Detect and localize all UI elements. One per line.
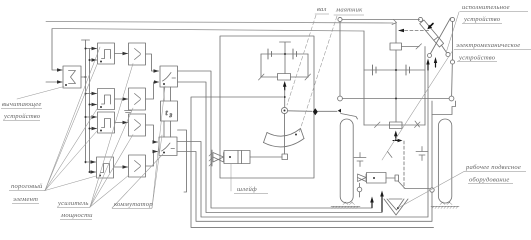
arrows bus to P4 [86,161,96,163]
wire summer output [81,76,86,78]
damper bowtie [213,153,224,163]
label маятник leader dashed [299,16,337,133]
wire wiper to pivot [284,90,286,107]
pendulum sector [264,139,305,147]
svg-text:мощности: мощности [60,212,93,219]
wire long feedback line top2 [52,29,364,32]
label вал leader dashed [287,15,316,105]
amplifier A1 [129,43,146,65]
svg-text:3: 3 [170,114,173,119]
link rod to blade [398,181,405,189]
bus vertical 1 [85,40,87,163]
svg-text:исполнительное: исполнительное [462,4,510,11]
actuator cylinder body [420,20,444,47]
tick arrows bridge [259,74,265,80]
svg-text:маятник: маятник [335,7,363,14]
wheel right [438,119,451,203]
wire P1 to A1 [115,53,128,55]
svg-text:пороговый: пороговый [11,183,43,190]
wire T1 side branch [178,130,187,192]
ground hatch right [431,205,459,207]
floating bold arrow near wheel [434,57,437,63]
pot frame left [363,31,365,125]
wire y188 [405,188,430,190]
wire K1 to T1 [164,87,171,101]
svg-text:усилитель: усилитель [57,200,89,207]
svg-text:электромеханическое: электромеханическое [456,42,520,49]
leader executive [446,12,459,53]
wire diamond to shaft arrow [318,110,337,112]
link rod diag [431,18,451,54]
wire P2 to A2 [115,98,128,100]
damper rod [250,156,282,158]
blade cylinder bowtie [358,174,367,182]
leader fan commutator [112,86,165,208]
wiper box pot [390,122,403,129]
link lower joint [428,54,432,58]
pot bottom wire [364,124,425,126]
ground contact marks left [343,202,355,205]
wire K1 out1 [178,71,373,208]
pot frame right [424,47,426,126]
actuator black arrow [431,24,434,27]
threshold block P1 [98,43,115,64]
wiper box bridge [278,74,291,81]
commutator K1 [160,66,178,87]
amplifier A2 [129,88,146,110]
svg-text:устройство: устройство [3,113,41,120]
damper cylinder C1 [224,151,250,164]
bus circle joint [430,188,434,192]
leader fan amplifier [90,64,133,208]
rod end square on pendulum [282,154,288,160]
suspension battery right [416,147,428,161]
battery B1 [268,49,272,59]
wire input2 to summer [46,81,62,83]
strut to axle [451,64,454,96]
wire A4 to K2 [146,152,158,167]
actuator top joint [418,17,422,21]
actuator rod joint [446,52,450,56]
timer block T1 [161,101,178,121]
svg-text:оборудование: оборудование [469,177,510,184]
amplifier A4 [129,155,146,177]
threshold block P3 [98,112,115,133]
bridge bottom [261,76,308,78]
arrow tick top1 end [392,20,397,25]
wire T1 to K2 [164,121,171,137]
axle circle left [338,96,343,101]
svg-text:устройство: устройство [458,55,496,62]
solenoid dashed lead [403,141,405,188]
threshold block P2 [98,89,115,110]
wire pendulum feed [191,97,434,227]
bridge top wire [261,53,308,55]
threshold block P4 [97,157,114,178]
shaft circle top [338,17,342,21]
tick arrows pot [375,122,381,128]
chassis step line right [432,101,456,115]
commutator K2 [159,137,177,156]
suspension battery left [354,153,366,167]
link mid joint [450,60,454,64]
wire input to summer from top2 [52,29,62,70]
svg-text:вычитающее: вычитающее [2,101,42,108]
bridge sides [261,54,308,77]
leader working equipment [398,172,464,209]
wire P4 to A4 [114,166,128,168]
node diamond box edge [313,108,318,115]
wire R1 right with tick [402,46,420,48]
leader electromech [382,50,453,160]
wire long feedback line top1 [46,22,393,24]
link vertical [452,22,454,60]
leader fan threshold [45,47,100,191]
pot wiper vertical top [395,23,397,43]
bus vertical 2 [89,49,91,173]
link top joint [450,17,454,21]
wire K2 out1 [177,67,428,217]
wire A1 to K1 [146,54,159,71]
wire damper to label [230,164,232,192]
blade cylinder rod [386,177,395,179]
pendulum pivot [281,107,287,113]
ground hatch left [331,205,360,207]
dashed link to actuator [400,30,430,32]
cyl pivot stem [359,183,361,197]
shaft vertical [339,22,341,97]
arrows bus to P2 [86,93,97,95]
bold arrow below wiper [284,86,286,90]
wire K2 out2 [177,152,432,222]
solenoid arrow up [395,136,397,140]
leader summer [17,87,64,100]
axle circle right [449,96,454,101]
resistor R1 [390,43,402,50]
summer U1 [63,66,81,88]
arrows bus to P3 [86,116,97,118]
battery B2 [293,49,297,59]
arrows bus to P1 [86,48,97,50]
actuator rod [442,45,447,52]
pot wiper vertical [395,50,397,122]
inner box middle [220,36,314,178]
T bar ref near A3 [125,111,132,113]
blade cylinder body [367,173,387,184]
amplifier A3 [129,114,146,136]
wire pivot to diamond [288,110,312,113]
svg-text:коммутатор: коммутатор [114,201,153,208]
pendulum rod [284,114,286,154]
damper anchor wall [211,150,213,166]
wire top shaft line [342,19,419,21]
blade V shape [384,199,408,215]
pot battery bars [373,65,410,75]
wire A3 to K2 [146,125,158,142]
chassis slope line left [341,114,358,120]
svg-text:устройство: устройство [463,16,501,23]
pot battery wire [364,69,425,71]
ground contact marks right [440,202,452,205]
wheel left [340,119,353,203]
wire P3 to A3 [115,122,128,124]
blade cylinder pivot circle [357,187,362,192]
wire K1 out2 [178,82,383,213]
svg-text:вал: вал [317,6,327,13]
svg-text:t: t [166,108,169,117]
svg-text:элемент: элемент [13,196,38,203]
svg-text:шлейф: шлейф [237,186,257,193]
svg-text:рабочее подвесное: рабочее подвесное [465,164,521,171]
wire A2 to K1 [146,82,159,99]
bridge center T [280,42,291,74]
solenoid arrow right [393,140,399,142]
axle line [342,98,449,100]
